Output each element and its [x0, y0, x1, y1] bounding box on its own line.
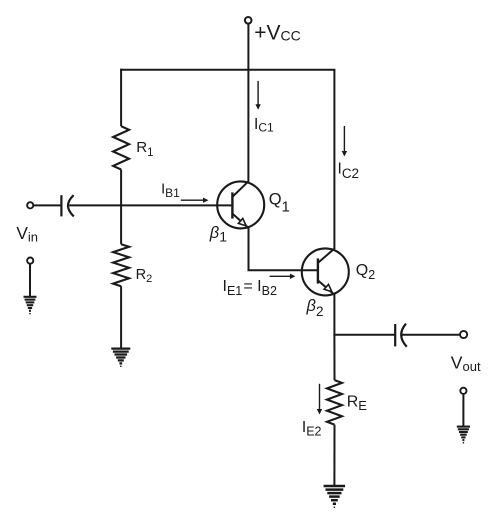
transistor Q1 base bar	[231, 192, 233, 218]
wire output node to RE	[333, 335, 335, 380]
wire emitter node to Q2 base	[248, 269, 319, 271]
wire output reference to ground	[462, 394, 464, 426]
transistor Q2 emitter stroke with arrow	[318, 281, 334, 295]
input reference terminal circle	[27, 258, 33, 264]
svg-text:IE1: IE1	[223, 278, 243, 298]
svg-text:Vin: Vin	[16, 223, 38, 244]
power terminal +VCC	[245, 17, 252, 70]
capacitor C2 (output coupling)	[395, 324, 407, 347]
resistor R2	[113, 244, 129, 286]
wire RE to ground	[333, 425, 335, 486]
svg-text:+VCC: +VCC	[254, 22, 301, 45]
label +VCC	[254, 22, 301, 45]
label Vin	[16, 223, 38, 244]
label beta1	[209, 224, 227, 245]
resistor RE	[327, 380, 342, 425]
output reference terminal circle	[460, 388, 466, 394]
svg-text:R1: R1	[136, 139, 153, 159]
label IC2	[338, 160, 360, 181]
ground below RE	[324, 486, 346, 507]
svg-text:IB1: IB1	[161, 182, 180, 201]
label IB1	[161, 182, 180, 201]
label Vout	[451, 353, 481, 375]
svg-text:= IB2: = IB2	[243, 278, 277, 298]
wire output node to C2	[333, 334, 395, 336]
wire C2 to output terminal	[402, 334, 461, 336]
input terminal circle	[27, 202, 33, 208]
label IE2	[302, 419, 322, 439]
label IC1	[254, 116, 274, 135]
wire C1 to Q1 base node	[69, 204, 232, 206]
label Q1	[269, 191, 290, 216]
capacitor C1 (input coupling)	[61, 195, 73, 216]
wire Q2 emitter down to output node	[333, 294, 335, 335]
label Q2	[356, 262, 375, 282]
label beta2	[306, 297, 324, 319]
ground below R2	[111, 349, 130, 367]
resistor R1	[113, 126, 129, 169]
output terminal circle	[460, 331, 467, 338]
wire Q1 emitter down	[248, 227, 250, 270]
wire R2 to ground	[120, 286, 122, 348]
svg-text:β2: β2	[306, 297, 324, 319]
transistor Q1 collector stroke	[233, 181, 249, 196]
arrow IE2	[317, 384, 322, 415]
svg-text:IE2: IE2	[302, 419, 322, 439]
transistor Q2 collector stroke	[318, 249, 334, 263]
ground below Vout	[457, 427, 470, 443]
label RE	[347, 393, 368, 413]
svg-text:Q2: Q2	[356, 262, 375, 282]
wire R1 to R2 through input node	[120, 170, 122, 245]
svg-text:IC1: IC1	[254, 116, 274, 135]
transistor Q1 circle	[217, 181, 264, 228]
wire VCC rail to Q1 collector	[247, 70, 249, 182]
transistor Q2 base bar	[317, 258, 319, 283]
wire rail to R1	[120, 69, 122, 127]
wire top rail	[120, 69, 335, 71]
arrow IC1	[255, 81, 260, 110]
svg-text:β1: β1	[209, 224, 227, 245]
svg-text:RE: RE	[347, 393, 368, 413]
svg-text:Vout: Vout	[451, 353, 481, 375]
arrow IB1	[181, 198, 209, 203]
transistor Q1 emitter stroke with arrow	[233, 214, 249, 228]
arrow IE1 current	[270, 274, 296, 279]
ground below Vin	[24, 297, 37, 314]
wire input terminal to C1	[34, 204, 62, 206]
svg-text:IC2: IC2	[338, 160, 360, 181]
label IE1 = IB2	[223, 278, 277, 298]
wire input reference to ground	[29, 264, 31, 297]
svg-text:R2: R2	[136, 267, 153, 285]
label R1	[136, 139, 153, 159]
wire rail to Q2 collector	[333, 70, 335, 249]
arrow IC2	[342, 126, 347, 157]
transistor Q2 circle	[302, 248, 349, 295]
svg-text:Q1: Q1	[269, 191, 290, 216]
label R2	[136, 267, 153, 285]
